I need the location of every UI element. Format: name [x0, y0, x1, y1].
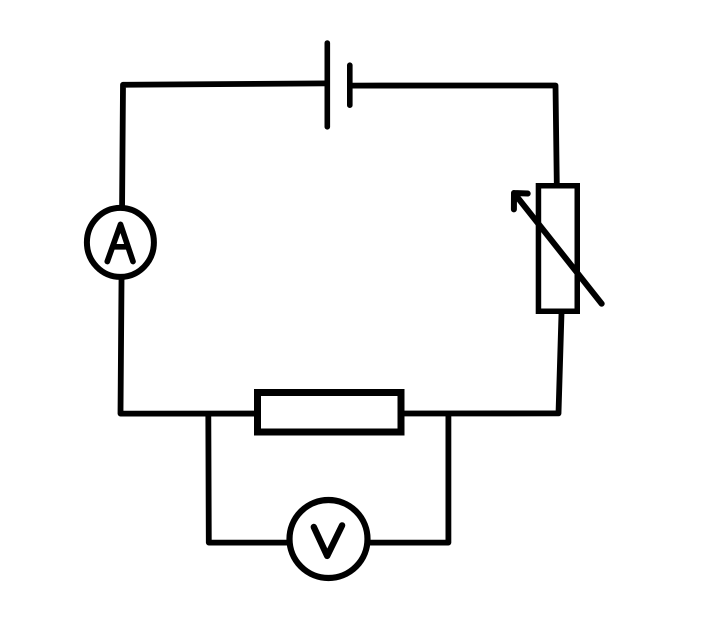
battery cell long plate (positive): [324, 43, 330, 127]
voltmeter circle: [290, 500, 368, 578]
ammeter label A: [107, 224, 133, 261]
variable resistor arrow: [514, 193, 602, 304]
wire: main loop (battery left terminal, around left/bottom/right back to battery right terminal): [121, 83, 562, 413]
wire: voltmeter parallel branch: [208, 411, 448, 543]
ammeter circle: [87, 208, 154, 277]
variable resistor body: [538, 186, 577, 312]
voltmeter label V: [314, 525, 342, 556]
battery cell short plate (negative): [347, 65, 353, 105]
resistor body: [258, 393, 402, 433]
